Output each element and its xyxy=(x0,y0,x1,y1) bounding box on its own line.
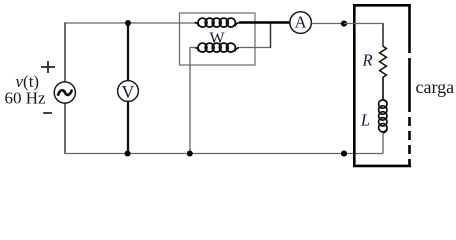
inductor L xyxy=(379,100,388,133)
wire bottom rail xyxy=(64,153,344,155)
wire top rail left xyxy=(65,22,197,24)
wire voltage coil left lead down xyxy=(190,48,196,154)
wire load bottom lead horizontal xyxy=(344,153,383,155)
wire V branch top (thick) xyxy=(127,23,129,81)
wire left vertical (source branch bottom) xyxy=(64,103,66,154)
node junction bottom right xyxy=(341,151,347,157)
wire left vertical (source branch top) xyxy=(64,22,66,81)
svg-text:L: L xyxy=(360,111,370,130)
wire top lead into load xyxy=(344,23,383,26)
svg-text:A: A xyxy=(295,13,307,32)
node junction bottom below V xyxy=(125,151,131,157)
wattmeter current coil (top) xyxy=(195,18,239,27)
wire thick: current coil to ammeter xyxy=(239,21,290,24)
label minus xyxy=(43,112,52,114)
wire R to L xyxy=(382,77,384,101)
wire ammeter to load node xyxy=(312,23,344,25)
wire voltage coil right lead xyxy=(239,47,271,49)
wattmeter box xyxy=(180,13,256,65)
node junction top-left (above V) xyxy=(125,20,131,26)
wire voltage tap vertical at x=270 xyxy=(270,23,272,49)
voltmeter V xyxy=(118,81,139,102)
resistor R xyxy=(380,46,387,77)
svg-text:V: V xyxy=(122,82,135,102)
load box (carga) with dashed right edge xyxy=(354,4,411,167)
wattmeter voltage coil (bottom) xyxy=(195,43,239,52)
wire L bottom lead xyxy=(382,133,384,154)
svg-text:R: R xyxy=(361,51,372,70)
ammeter A xyxy=(290,12,312,34)
node junction top right xyxy=(341,21,347,27)
wire vertical down to R xyxy=(382,24,384,47)
wire V branch bottom (thick) xyxy=(127,101,129,153)
node junction bottom below wattmeter xyxy=(187,151,193,157)
svg-text:carga: carga xyxy=(416,77,455,97)
source v(t) xyxy=(54,82,75,103)
svg-text:60 Hz: 60 Hz xyxy=(5,88,47,107)
label + xyxy=(41,61,55,73)
